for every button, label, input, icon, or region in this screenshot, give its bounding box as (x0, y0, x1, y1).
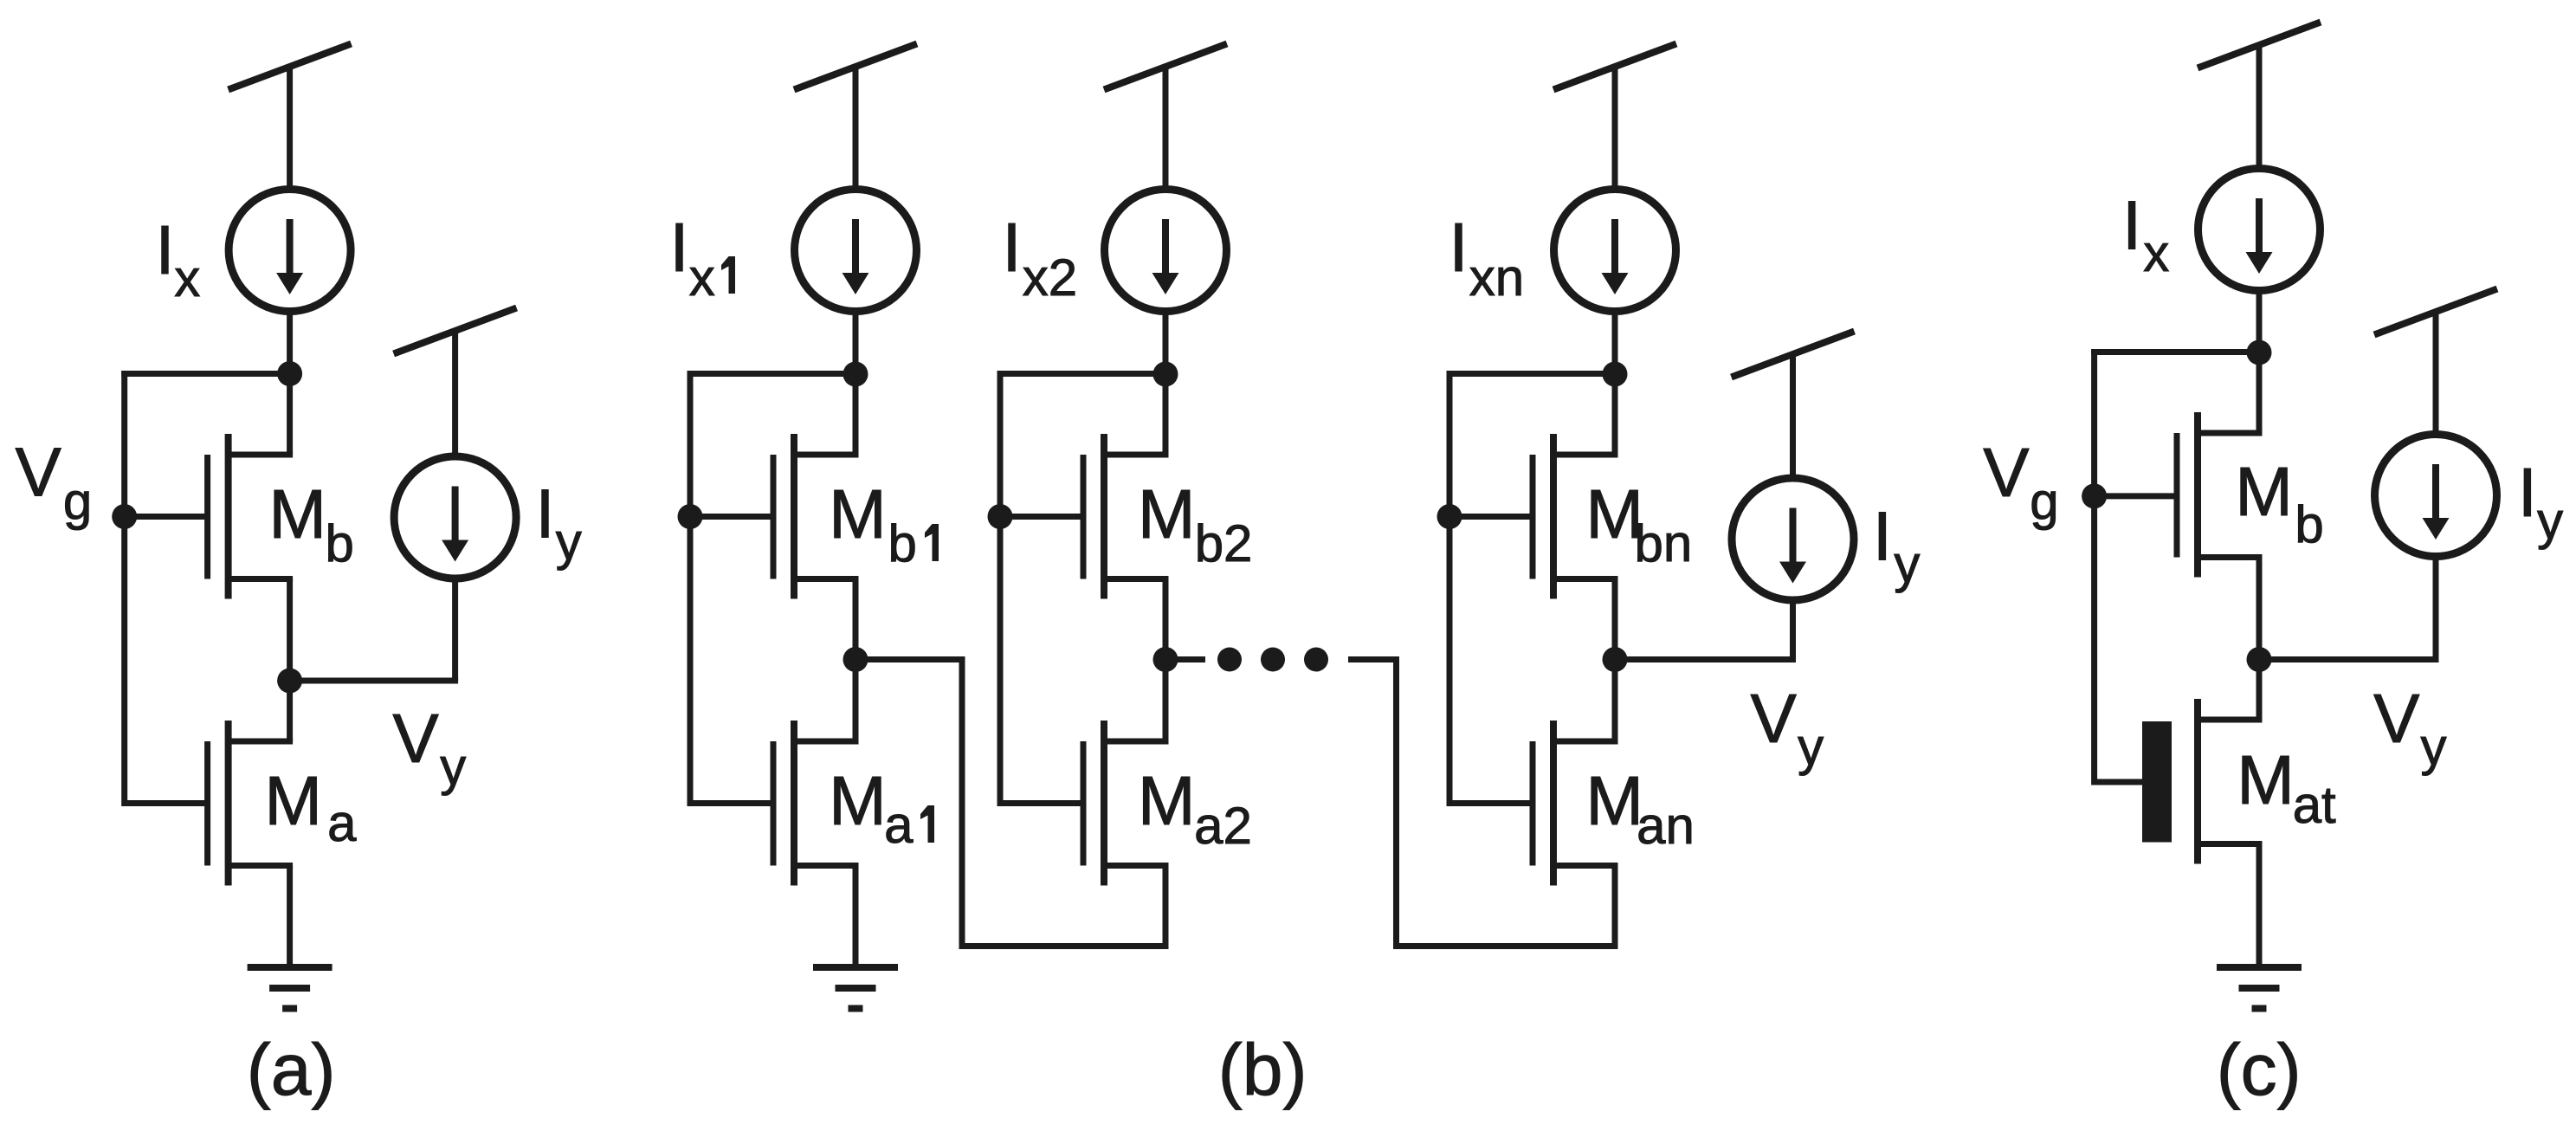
caption (a) (247, 1029, 336, 1110)
label Iy (b) (1873, 497, 1921, 593)
wire source Mb to node (c) (2256, 558, 2263, 660)
svg-text:y: y (556, 513, 582, 571)
label Ma (264, 762, 357, 852)
svg-text:x: x (174, 249, 200, 307)
transistor Mbn (1533, 434, 1618, 599)
wire node n to Iy branch (1615, 656, 1796, 662)
wire gate of Ma2 (1000, 800, 1083, 806)
svg-text:V: V (16, 434, 62, 511)
wire mid node to drain Ma1 (853, 660, 859, 742)
label Mb2 (1138, 475, 1253, 572)
caption (c) (2217, 1029, 2302, 1110)
wire VDD stub to Ixn (1612, 67, 1618, 187)
svg-text:xn: xn (1469, 249, 1524, 307)
svg-text:b: b (326, 514, 354, 572)
caption (b) (1218, 1029, 1307, 1110)
wire gate rail n (1447, 371, 1453, 806)
svg-text:M: M (268, 475, 326, 553)
label Ma2 (1138, 762, 1252, 855)
wire node to drain Mat (2256, 660, 2263, 721)
transistor Ma (208, 721, 294, 886)
wire VDD stub to Iy (b) (1790, 354, 1796, 475)
node gate Mbn (1437, 504, 1462, 529)
wire Ixn to node (1612, 313, 1618, 374)
wire VDD stub to Ix2 (1163, 67, 1169, 187)
label Vy (b) (1751, 680, 1824, 776)
figure (a) supply symbol VDD for Ix (229, 44, 352, 90)
wire node to rail n (1447, 371, 1616, 377)
node drain of Mb / gate feedback (277, 361, 302, 386)
label Vy (c) (2373, 680, 2446, 776)
wire gate of Mat (2095, 779, 2142, 785)
label Man (1585, 762, 1694, 855)
wire node1 to stage2 source link (855, 656, 962, 662)
node gate Mb1 (678, 504, 703, 529)
transistor Mb (208, 434, 294, 599)
svg-text:I: I (1449, 209, 1468, 286)
figure (b) supply symbol VDD for Ixn (1553, 44, 1676, 90)
wire node to rail 2 (997, 371, 1166, 377)
wire gate rail (c) (2091, 349, 2097, 785)
wire link bottom stage n (1393, 943, 1618, 949)
svg-text:I: I (2518, 454, 2537, 531)
svg-text:M: M (2235, 453, 2293, 530)
wire node to rail (c) (2091, 349, 2259, 355)
ground (c) (2217, 967, 2302, 1009)
label Ix2 (1002, 209, 1077, 307)
svg-text:I: I (669, 209, 688, 286)
wire Iy to node Vy (452, 580, 458, 681)
svg-text:M: M (1138, 475, 1196, 553)
wire Iy (b) to node (1790, 602, 1796, 660)
wire mid node to drain Man (1612, 660, 1618, 742)
wire left gate rail (121, 371, 127, 806)
node Vg (c) (2082, 483, 2107, 508)
node drain Mbn (1603, 362, 1628, 387)
wire gate of Ma1 (690, 800, 773, 806)
wire gate of Mbn (1449, 514, 1533, 520)
wire node to drain Ma (287, 681, 293, 741)
svg-text:b2: b2 (1195, 514, 1253, 572)
wire gate of Mb (c) (2095, 493, 2177, 499)
transistor Ma1 (773, 721, 859, 886)
wire gate of Ma (125, 800, 208, 806)
svg-text:V: V (392, 700, 439, 777)
svg-text:a: a (327, 794, 357, 852)
svg-text:x: x (2143, 224, 2169, 282)
wire gate of Mb2 (1000, 514, 1083, 520)
node drain Mb (c) (2247, 340, 2272, 365)
current source Ix1 (795, 190, 917, 312)
wire source Mbn to mid node (1612, 579, 1618, 660)
wire VDD stub to Ix (c) (2256, 45, 2263, 166)
current source Ix2 (1105, 190, 1227, 312)
svg-text:an: an (1637, 797, 1695, 855)
wire link up to source Ma2 (1163, 866, 1169, 947)
wire VDD stub to Iy (c) (2433, 312, 2439, 433)
figure (c) supply symbol VDD for Ix (2198, 23, 2321, 68)
svg-text:M: M (829, 762, 887, 839)
wire link down to stage n (1393, 656, 1399, 947)
label Vg (c) (1983, 434, 2058, 531)
wire gate of Man (1449, 800, 1533, 806)
wire node to rail 1 (688, 371, 856, 377)
wire drain Mb to node (287, 374, 293, 456)
label Vy (a) (392, 700, 466, 796)
svg-text:b: b (888, 514, 917, 572)
transistor Mb2 (1083, 434, 1169, 599)
ground (a) (248, 967, 332, 1009)
label Mb (268, 475, 353, 572)
transistor Man (1533, 721, 1618, 886)
supply symbol VDD for Iy (b) (1732, 332, 1855, 378)
wire source Ma to ground (287, 866, 293, 968)
wire mid node to drain Ma2 (1163, 660, 1169, 742)
transistor Ma2 (1083, 721, 1169, 886)
svg-text:y: y (440, 738, 466, 796)
wire drain Mb2 (1163, 374, 1169, 455)
ellipsis dot 1 (1217, 648, 1242, 672)
svg-text:x2: x2 (1023, 249, 1077, 307)
wire source Mat to ground (2256, 844, 2263, 968)
label Ix1 (669, 209, 735, 307)
figure (b) supply symbol VDD for Ix2 (1104, 44, 1227, 90)
wire gate of Mb (125, 514, 208, 520)
svg-text:at: at (2293, 776, 2336, 834)
wire link down stage1-2 (959, 656, 965, 947)
svg-text:y: y (2421, 718, 2447, 776)
supply symbol VDD for Iy (394, 308, 517, 354)
transistor Mat (thick gate) (2142, 699, 2263, 864)
wire node to Iy (c) (2259, 656, 2439, 662)
wire Ix2 to node (1163, 313, 1169, 374)
figure (b) supply symbol VDD for Ix1 (794, 44, 917, 90)
label Mbn (1585, 475, 1692, 572)
ground (b) (813, 967, 898, 1009)
wire Ix to node (c) (2256, 293, 2263, 352)
wire Iy to node (c) (2433, 559, 2439, 660)
current source Ix (229, 190, 351, 312)
wire node2 to ellipsis (1165, 656, 1205, 662)
svg-text:V: V (1983, 434, 2030, 511)
svg-text:(b): (b) (1218, 1029, 1307, 1110)
svg-text:M: M (264, 762, 322, 839)
current source Ixn (1554, 190, 1676, 312)
wire drain Mb1 (853, 374, 859, 455)
svg-text:a: a (884, 796, 914, 854)
wire source Mb to node Vy (287, 579, 293, 682)
current source Iy (b) (1732, 478, 1854, 600)
transistor Mb (c) (2177, 412, 2263, 578)
label Ixn (1449, 209, 1524, 307)
wire VDD stub to Ix1 (853, 67, 859, 187)
wire VDD stub to Iy (452, 331, 458, 454)
wire drain Mbn (1612, 374, 1618, 455)
svg-text:bn: bn (1635, 514, 1693, 572)
wire source Mb1 to mid node (853, 579, 859, 660)
node Vg (112, 504, 137, 529)
wire source Ma1 to ground (853, 866, 859, 968)
current source Ix (c) (2198, 169, 2321, 291)
svg-text:(a): (a) (247, 1029, 336, 1110)
wire gate rail 1 (688, 371, 694, 806)
node drain Mb2 (1153, 362, 1178, 387)
node source Mb1 (843, 647, 868, 672)
svg-text:I: I (1873, 497, 1892, 574)
current source Iy (394, 456, 516, 578)
svg-text:g: g (63, 473, 92, 531)
supply symbol VDD for Iy (c) (2374, 289, 2497, 335)
label Mb1 (829, 475, 939, 572)
node Vy (c) (2247, 647, 2272, 672)
transistor Mb1 (773, 434, 859, 599)
label Ix (c) (2122, 187, 2169, 283)
label Iy (a) (535, 475, 581, 571)
wire drain Mb (c) (2256, 352, 2263, 433)
ellipsis dot 2 (1261, 648, 1285, 672)
label Mb (c) (2235, 453, 2324, 553)
wire gate of Mb1 (690, 514, 773, 520)
wire gate rail 2 (997, 371, 1004, 806)
svg-text:I: I (155, 211, 174, 288)
svg-text:g: g (2030, 473, 2058, 531)
label Ix (155, 211, 200, 307)
svg-text:a2: a2 (1194, 797, 1252, 855)
wire source Mb2 to mid node (1163, 579, 1169, 660)
svg-text:x: x (689, 249, 715, 307)
wire node to Iy branch (290, 678, 458, 684)
label Vg (16, 434, 93, 531)
svg-text:V: V (1751, 680, 1798, 757)
svg-text:M: M (1138, 762, 1196, 839)
svg-text:V: V (2373, 680, 2420, 757)
wire link bottom stage1-2 (959, 943, 1169, 949)
wire Ix to node (287, 313, 293, 374)
node source Mb2 (1153, 647, 1178, 672)
ellipsis dot 3 (1304, 648, 1328, 672)
svg-text:I: I (535, 475, 554, 553)
node source Mbn (1603, 647, 1628, 672)
label Mat (2237, 741, 2336, 834)
current source Iy (c) (2375, 435, 2497, 557)
svg-text:y: y (1894, 535, 1920, 593)
svg-text:y: y (2537, 492, 2563, 550)
svg-text:M: M (829, 475, 887, 553)
wire link up to source Man (1612, 866, 1618, 947)
node Vy (a) (277, 669, 302, 694)
svg-text:y: y (1798, 718, 1824, 776)
node gate Mb2 (988, 504, 1013, 529)
wire Ix1 to node (853, 313, 859, 374)
svg-text:I: I (2122, 187, 2141, 264)
svg-text:I: I (1002, 209, 1021, 286)
svg-text:M: M (1585, 762, 1643, 839)
wire VDD stub to Ix (287, 67, 293, 187)
node drain Mb1 (843, 362, 868, 387)
svg-text:(c): (c) (2217, 1029, 2302, 1110)
svg-text:b: b (2295, 495, 2323, 553)
wire top node to left rail (121, 371, 289, 377)
wire ellipsis to stage n link (1348, 656, 1397, 662)
label Iy (c) (2518, 454, 2563, 550)
svg-text:M: M (2237, 741, 2295, 818)
label Ma1 (829, 762, 934, 854)
